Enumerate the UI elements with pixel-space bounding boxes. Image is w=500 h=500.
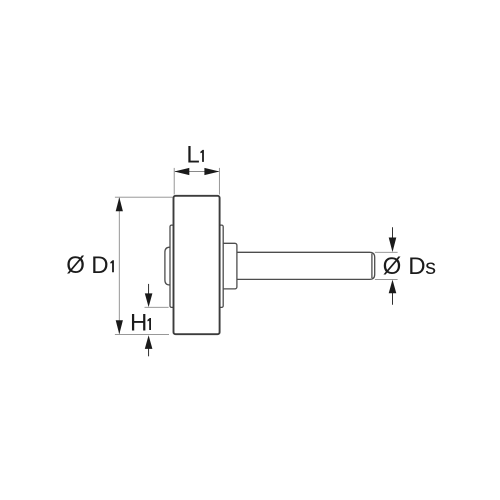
D1 arrowhead top (116, 197, 123, 211)
svg-text:H: H (130, 310, 147, 337)
svg-text:Ø: Ø (66, 252, 85, 279)
Ds arrow above (pointing down) (392, 227, 394, 239)
hub boss (right) (221, 243, 237, 289)
svg-text:D: D (91, 252, 108, 279)
D1 extension line top (115, 196, 173, 198)
svg-text:Ø: Ø (383, 253, 402, 280)
L1 extension line right (218, 168, 220, 195)
hub cap (left rounded bump) (165, 247, 172, 285)
L1 arrowhead right (204, 168, 219, 175)
H1 arrow above (pointing down) (148, 284, 150, 295)
flange plate (170, 225, 223, 307)
Ds extension line top (375, 251, 398, 253)
Ds arrow below (pointing up) (392, 292, 394, 305)
D1 dimension line (118, 198, 120, 334)
H1 extension line top (145, 306, 169, 308)
L1 arrowhead left (174, 168, 189, 175)
wheel body (174, 196, 220, 334)
D1 extension line bottom (115, 333, 169, 335)
H1 arrow below (pointing up) (148, 345, 150, 356)
L1 extension line left (173, 168, 175, 195)
Ds extension line bottom (375, 278, 398, 280)
L1 dimension line (175, 171, 219, 173)
svg-text:L: L (186, 141, 199, 168)
svg-text:D: D (408, 253, 425, 280)
D1 arrowhead bottom (116, 320, 123, 334)
svg-text:s: s (425, 255, 436, 279)
shaft (axle) (230, 252, 375, 279)
